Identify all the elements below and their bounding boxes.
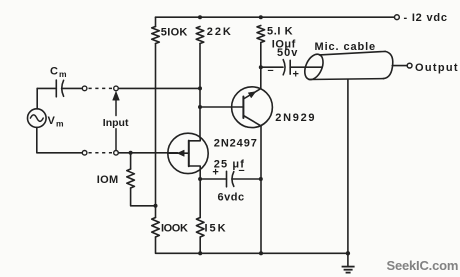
wire FET source down to 25uf node xyxy=(199,169,201,217)
wire 22K bottom to FET drain xyxy=(199,44,201,138)
terminal -12 vdc xyxy=(395,15,400,20)
svg-text:V: V xyxy=(48,115,56,127)
wire top supply rail xyxy=(156,16,395,18)
capacitor C 25uf xyxy=(200,178,226,180)
svg-text:+: + xyxy=(293,69,299,81)
svg-text:25 μf: 25 μf xyxy=(214,158,245,170)
wire dashed top xyxy=(89,87,113,89)
resistor R 22K xyxy=(196,27,204,44)
wire collector down to ground rail xyxy=(260,126,262,253)
node junction shield/rail xyxy=(346,251,350,255)
node connector top right xyxy=(114,86,119,91)
wire top input line xyxy=(37,87,56,89)
capacitor C 10uf xyxy=(261,66,283,68)
node connector bottom left xyxy=(82,151,87,156)
wire output lead xyxy=(392,65,407,67)
wire Vm leads xyxy=(37,88,82,152)
node junction collector/25uf xyxy=(259,177,263,181)
svg-text:Input: Input xyxy=(103,117,129,129)
wire mic shield to ground xyxy=(347,80,349,254)
wire 510K column top (rail corner down to resistor) xyxy=(155,17,157,26)
svg-text:22K: 22K xyxy=(207,26,233,38)
svg-text:- I2 vdc: - I2 vdc xyxy=(404,12,448,24)
resistor R 15K xyxy=(196,218,204,238)
node junction 10M/divider xyxy=(154,204,158,208)
node junction emitter/5.1K/10uf xyxy=(259,65,263,69)
wire 510K bottom to 100K top (left bias column) xyxy=(155,44,157,218)
svg-text:m: m xyxy=(59,69,67,79)
wire bottom input / gate line xyxy=(118,152,177,154)
wire 10M lead top xyxy=(130,153,132,169)
svg-text:I5K: I5K xyxy=(205,223,228,235)
svg-text:Mic. cable: Mic. cable xyxy=(315,41,377,53)
ground xyxy=(347,253,349,266)
svg-text:SeekIC.com: SeekIC.com xyxy=(387,258,459,273)
node junction 5.1K top rail xyxy=(259,15,263,19)
wire 10M bottom L to divider xyxy=(131,188,156,206)
wire dashed bottom xyxy=(89,152,113,154)
svg-text:2N929: 2N929 xyxy=(275,112,316,124)
capacitor Cm xyxy=(55,80,57,97)
node junction 15K/rail xyxy=(198,251,202,255)
resistor R 10M xyxy=(127,169,135,188)
node junction 22K top rail xyxy=(198,15,202,19)
svg-text:IOOK: IOOK xyxy=(161,223,188,235)
wire base line 2N929 xyxy=(200,106,243,108)
resistor R 100K xyxy=(152,218,160,238)
node junction source/25uf xyxy=(198,177,202,181)
node junction base/22K xyxy=(198,105,202,109)
svg-text:C: C xyxy=(50,66,58,78)
node junction input/22K xyxy=(198,86,202,90)
transistor Q2 2N929 xyxy=(232,87,273,128)
label Input with arrow xyxy=(115,100,117,116)
svg-text:5.I K: 5.I K xyxy=(267,25,293,37)
resistor R 5.1K xyxy=(257,26,265,43)
svg-text:5IOK: 5IOK xyxy=(161,26,188,38)
source Vm (AC) xyxy=(28,109,47,128)
wire top input to 22K node xyxy=(118,87,200,89)
svg-text:6vdc: 6vdc xyxy=(218,191,245,203)
wire bottom ground rail xyxy=(156,237,348,253)
terminal Output xyxy=(407,63,412,68)
node junction collector/rail xyxy=(259,251,263,255)
svg-text:2N2497: 2N2497 xyxy=(214,137,258,149)
svg-text:50v: 50v xyxy=(277,47,298,59)
wire 5.1K bottom to emitter node xyxy=(260,43,262,89)
node junction 10M top xyxy=(129,151,133,155)
node connector bottom right xyxy=(114,151,119,156)
svg-text:–: – xyxy=(268,65,274,77)
svg-text:Output: Output xyxy=(415,62,459,74)
transistor Q1 2N2497 FET xyxy=(168,133,208,173)
svg-text:m: m xyxy=(56,119,64,129)
svg-text:IOM: IOM xyxy=(97,174,119,186)
mic cable cylinder xyxy=(301,51,393,82)
resistor R 510K xyxy=(152,27,160,44)
node connector top left xyxy=(82,86,87,91)
